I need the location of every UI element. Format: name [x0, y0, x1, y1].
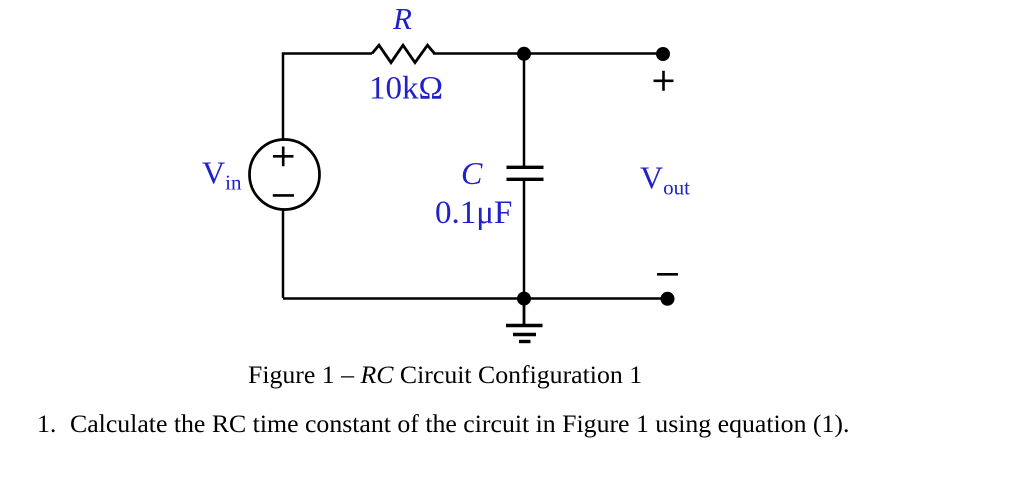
wire: capacitor branch upper [523, 54, 526, 168]
polarity + (output) [654, 71, 674, 91]
node: bottom capacitor junction [517, 292, 531, 306]
capacitor C (plates) [507, 167, 544, 179]
wire: bottom from source to output terminal [283, 297, 667, 300]
node: top capacitor junction [517, 47, 531, 61]
voltage source Vin (circle, drawn over wire) [250, 140, 320, 210]
terminal: top-right output [656, 47, 670, 61]
svg-text:0.1μF: 0.1μF [435, 195, 512, 231]
svg-text:Calculate the RC time constant: Calculate the RC time constant of the ci… [70, 409, 849, 438]
resistor R (zigzag) [372, 45, 435, 62]
svg-text:1.: 1. [37, 409, 56, 438]
svg-text:Figure 1 – RC Circuit Configur: Figure 1 – RC Circuit Configuration 1 [248, 360, 642, 389]
wire: resistor to output terminal (top) [433, 52, 663, 55]
svg-text:10kΩ: 10kΩ [369, 71, 443, 107]
terminal: bottom-right output [661, 292, 675, 306]
wire: top-left segment from source top corner to resistor [283, 54, 372, 299]
wire: capacitor branch lower [523, 179, 526, 298]
polarity - (output) [657, 273, 678, 276]
ground symbol [506, 299, 543, 342]
svg-text:R: R [392, 1, 412, 36]
svg-text:C: C [461, 155, 483, 191]
